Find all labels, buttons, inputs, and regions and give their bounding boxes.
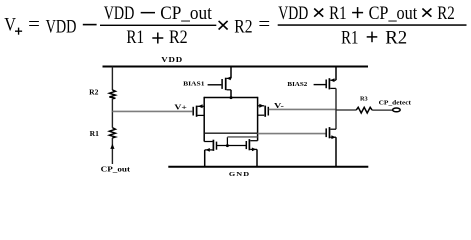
svg-text:R1: R1 [90,130,100,138]
svg-text:R1: R1 [329,3,347,24]
svg-text:R2: R2 [169,27,188,48]
svg-text:R2: R2 [234,17,252,38]
svg-text:VDD: VDD [46,17,77,38]
svg-text:R1: R1 [126,27,144,48]
svg-text:VDD: VDD [104,3,135,24]
svg-text:VDD: VDD [161,57,183,64]
svg-text:R2: R2 [385,27,407,48]
svg-text:V-: V- [274,101,285,110]
svg-text:BIAS1: BIAS1 [183,81,204,87]
svg-text:VDD: VDD [278,3,308,24]
svg-text:R2: R2 [89,88,99,96]
svg-text:V+: V+ [174,103,187,112]
svg-text:R2: R2 [437,3,455,24]
svg-text:R1: R1 [341,27,358,48]
svg-text:BIAS2: BIAS2 [287,81,307,88]
svg-text:CP_out: CP_out [160,3,212,24]
svg-text:CP_out: CP_out [101,166,131,174]
svg-text:CP_detect: CP_detect [379,100,412,107]
svg-text:=: = [258,14,270,35]
svg-text:CP_out: CP_out [369,3,418,24]
svg-text:GND: GND [229,172,250,177]
svg-text:V: V [4,15,16,36]
svg-text:R3: R3 [360,96,368,103]
svg-text:=: = [28,14,40,35]
